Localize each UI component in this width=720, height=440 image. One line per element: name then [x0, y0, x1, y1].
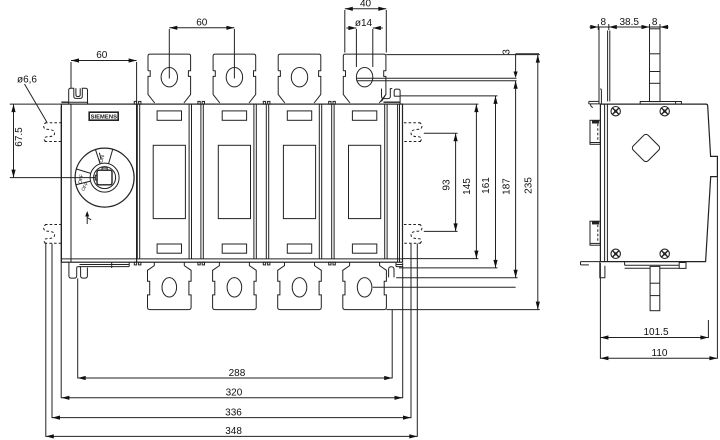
svg-text:60: 60	[196, 17, 208, 28]
svg-text:SIEMENS: SIEMENS	[91, 115, 118, 121]
svg-text:101.5: 101.5	[643, 327, 668, 338]
svg-text:60: 60	[96, 50, 108, 61]
svg-text:110: 110	[652, 348, 668, 359]
svg-text:8: 8	[652, 17, 658, 28]
svg-text:348: 348	[225, 426, 242, 437]
svg-text:145: 145	[462, 178, 473, 195]
svg-text:187: 187	[501, 178, 512, 195]
svg-text:40: 40	[360, 0, 372, 10]
svg-text:235: 235	[524, 177, 535, 194]
svg-text:320: 320	[226, 388, 243, 399]
svg-text:3: 3	[501, 49, 512, 55]
svg-text:161: 161	[481, 177, 492, 194]
svg-text:8: 8	[601, 17, 607, 28]
svg-text:38.5: 38.5	[619, 17, 639, 28]
svg-text:ø6,6: ø6,6	[17, 74, 37, 85]
svg-text:ø14: ø14	[355, 18, 373, 29]
svg-text:67.5: 67.5	[14, 127, 25, 147]
svg-text:93: 93	[441, 179, 452, 191]
svg-text:288: 288	[229, 368, 246, 379]
svg-text:336: 336	[225, 407, 242, 418]
